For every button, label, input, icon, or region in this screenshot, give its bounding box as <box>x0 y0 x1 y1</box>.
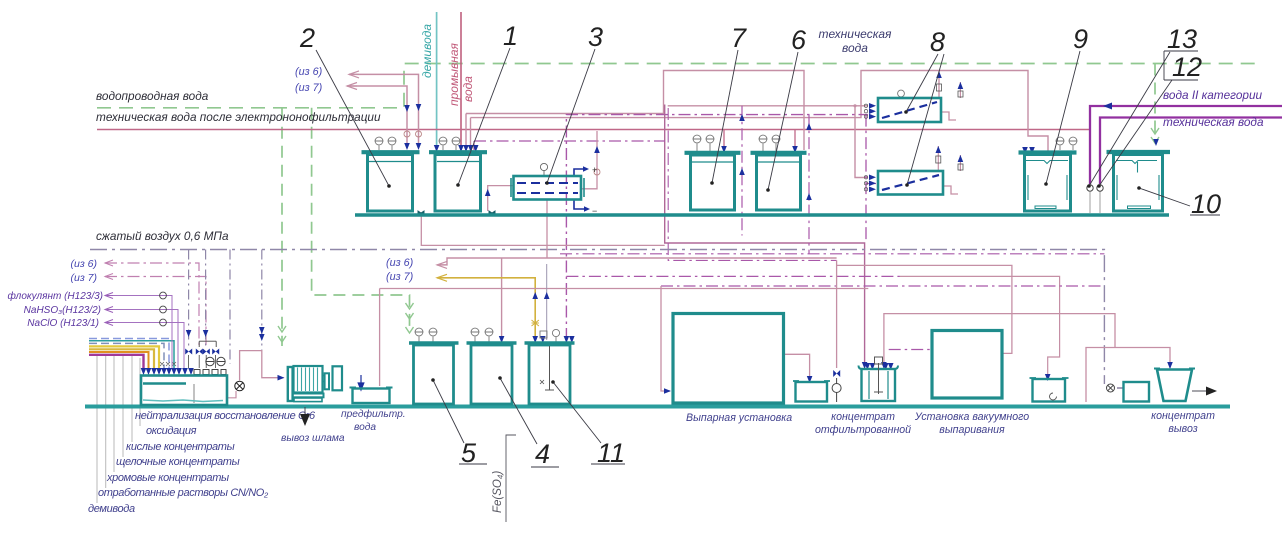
wire vertical riser right of 6 <box>808 115 810 254</box>
svg-text:оксидация: оксидация <box>146 425 197 437</box>
wire green drop to tank 10 <box>1154 64 1156 137</box>
wire stub to tank6 lid <box>794 130 796 147</box>
wire pink valve loop at concentrate tank <box>837 260 1012 368</box>
wire stub to tank7 lid <box>723 130 725 147</box>
arrows into tanks 4 and 11 lids <box>499 336 575 343</box>
callout number 2 <box>299 23 391 188</box>
svg-text:вода: вода <box>842 41 868 55</box>
callout number 6 <box>766 25 807 192</box>
svg-text:кислые концентраты: кислые концентраты <box>126 441 235 453</box>
arrow into tank B <box>1045 374 1051 381</box>
left supply bundle: orange <box>89 352 149 368</box>
pump at neutralization outlet <box>228 391 236 398</box>
wire magenta dashdot mid long <box>560 253 1104 255</box>
tank 2 <box>362 152 420 211</box>
wire green drop to drum area <box>281 108 283 346</box>
wire pink upper band <box>421 215 664 245</box>
svg-text:(из 7): (из 7) <box>71 272 97 284</box>
tank 9 <box>1019 153 1077 212</box>
svg-text:демивода: демивода <box>88 503 135 515</box>
wire pink bridge unit6 loop <box>466 71 804 151</box>
valve circles above neutralization <box>206 357 225 365</box>
callout number 5 <box>431 378 487 468</box>
check valve circle <box>832 378 841 402</box>
svg-text:(из 6): (из 6) <box>295 66 322 78</box>
wire vertical riser between 7 and 6 <box>741 106 743 236</box>
filter cylinder 3 <box>511 176 584 200</box>
valve circles above tanks 5 and 4 <box>415 328 560 342</box>
wire demivoda cyan drop <box>436 12 438 150</box>
svg-text:NaClO (Н123/1): NaClO (Н123/1) <box>27 318 99 329</box>
svg-text:12: 12 <box>1172 52 1202 82</box>
svg-text:нейтрализация восстановление C: нейтрализация восстановление Cr6 <box>135 410 316 422</box>
svg-text:отфильтрованной: отфильтрованной <box>815 424 911 436</box>
wire left pink dashdot iz7 <box>105 277 206 347</box>
left supply bundle: magenta <box>89 355 144 368</box>
svg-text:(из 6): (из 6) <box>386 257 413 269</box>
membrane unit 8 upper <box>878 98 941 122</box>
concentrate tank inlet arrow <box>862 362 868 369</box>
wire pink prefilter feed <box>379 289 381 387</box>
svg-text:(из 7): (из 7) <box>386 271 413 283</box>
svg-text:хромовые концентраты: хромовые концентраты <box>106 472 229 484</box>
wire pink evaporator to tank A <box>784 354 810 376</box>
svg-text:NaHSO₃(Н123/2): NaHSO₃(Н123/2) <box>24 305 101 316</box>
valve circles above top tanks <box>375 90 1078 151</box>
svg-text:1: 1 <box>503 21 518 51</box>
vacuum evaporation unit box <box>932 331 1002 399</box>
unit8b outlet step <box>943 186 958 194</box>
tank 4 <box>467 343 517 404</box>
left supply bundle: teal <box>89 341 174 368</box>
wire green water main: vodoprovodnaya voda <box>97 64 1258 108</box>
unit8a outlet step <box>941 112 956 120</box>
cylinder3 feed pump <box>488 186 513 211</box>
pump symbols on top baseline <box>418 211 495 215</box>
prefilter inlet arrow <box>358 375 364 390</box>
wire NaClO line <box>105 323 184 369</box>
wire air main dashdot <box>90 250 1123 389</box>
wire magenta dashdot unit8a feed from tank11 <box>566 115 868 340</box>
unit8a inlet arrows <box>869 103 876 119</box>
concentrate removal hopper <box>1154 369 1195 402</box>
wire flokulyant line <box>105 296 172 369</box>
wire pink feed unit8a <box>668 105 868 107</box>
wire pink return iz6 to tank2 <box>349 74 419 148</box>
svg-text:техническая вода: техническая вода <box>1163 115 1264 129</box>
tank 11 <box>525 343 575 404</box>
wire pink iz6 mid to tank4 <box>437 258 837 339</box>
tank 7 <box>685 153 741 210</box>
svg-text:техническая: техническая <box>819 27 893 41</box>
svg-text:водопроводная вода: водопроводная вода <box>96 89 209 103</box>
manifold legs to tank <box>189 355 216 368</box>
condensate tank A <box>793 381 830 402</box>
svg-text:вода: вода <box>461 76 475 102</box>
svg-text:(из 7): (из 7) <box>295 82 322 94</box>
wire magenta dashdot y141 to tank1 <box>474 141 665 150</box>
tank 1 <box>429 152 487 211</box>
wire pink bridge unit9 loop <box>471 71 1049 152</box>
callout number 4 <box>498 376 559 469</box>
wire green branch to tank 5 <box>312 108 410 330</box>
svg-text:концентрат: концентрат <box>1151 410 1215 422</box>
svg-text:выпаривания: выпаривания <box>939 424 1005 436</box>
wire yellow drop tank4 gray stub <box>546 264 548 340</box>
svg-text:4: 4 <box>535 439 550 469</box>
mixer arrows into concentrate tank <box>865 363 894 370</box>
top process baseline <box>355 213 1169 217</box>
left supply bundle: yellow 2 <box>89 349 154 368</box>
svg-text:вывоз шлама: вывоз шлама <box>281 433 345 444</box>
wire purple pair down mid <box>665 105 865 363</box>
left supply bundle: blue dashed <box>89 339 169 369</box>
callout number 9 <box>1044 24 1088 186</box>
svg-text:вода: вода <box>354 422 376 433</box>
svg-text:флокулянт (Н123/3): флокулянт (Н123/3) <box>8 290 103 302</box>
FeSO4 bracket line <box>506 435 516 522</box>
hopper outlet arrow <box>1192 387 1217 396</box>
wire magenta drop unit8b feed2 <box>866 115 876 243</box>
green chevrons to tank5 <box>406 303 414 333</box>
callout number 11 <box>551 380 625 468</box>
wire pink tank11 out to tank B right <box>566 275 900 277</box>
svg-text:+: + <box>592 165 597 175</box>
valve cross ticks <box>160 362 176 366</box>
purple line arrow <box>1103 103 1112 110</box>
svg-text:7: 7 <box>731 23 747 53</box>
evaporator unit box <box>673 314 784 404</box>
bottom process baseline <box>85 405 1230 409</box>
membrane unit 8 lower <box>878 171 943 195</box>
svg-text:13: 13 <box>1167 24 1197 54</box>
drum vacuum filter <box>288 366 342 402</box>
tank 5 <box>409 343 459 404</box>
neutralization tank <box>141 376 227 406</box>
callout number 13 <box>1087 24 1198 188</box>
inlet arrows into neutralization tank <box>141 368 194 375</box>
svg-text:8: 8 <box>930 27 945 57</box>
svg-text:сжатый воздух 0,6 МПа: сжатый воздух 0,6 МПа <box>96 229 229 243</box>
tank 6 <box>751 153 807 210</box>
tank 10 <box>1107 152 1171 211</box>
arrows into tanks 1 2 lids <box>404 139 1159 154</box>
wire purple thick tech voda right <box>1100 118 1282 185</box>
svg-text:Fe(SO₄): Fe(SO₄) <box>492 471 504 513</box>
svg-text:9: 9 <box>1073 24 1088 54</box>
callout number 12 <box>1097 51 1202 188</box>
left supply bundle: slate dashed <box>89 343 164 368</box>
wire pink concentrate riser over vacuum box <box>884 314 1115 362</box>
wire gold iz7 mid to tank11 <box>437 278 535 340</box>
svg-text:предфильтр.: предфильтр. <box>341 408 406 420</box>
bowtie valve on concentrate feed <box>833 370 840 377</box>
wire pink pump to drum filter <box>240 351 284 381</box>
valve circle 13 <box>1087 185 1093 191</box>
air valve at hopper line <box>1107 384 1115 392</box>
svg-text:техническая вода после электро: техническая вода после электрононофильтр… <box>96 110 381 124</box>
wire magenta dashdot into vacuum box <box>889 349 932 351</box>
air drops to manifold <box>189 250 262 365</box>
valve circle 12 <box>1097 185 1103 191</box>
upper arrowheads on tank2 drops <box>404 104 421 112</box>
left supply bundle: yellow 1 <box>89 346 159 368</box>
wire pink return iz7 to tank2 <box>347 86 407 148</box>
svg-text:вывоз: вывоз <box>1168 423 1197 435</box>
callout number 8 <box>904 27 945 187</box>
wire pink riser join band <box>546 200 548 259</box>
blue up arrows near tank11 <box>532 292 549 299</box>
wire pink hopper feed <box>1086 348 1170 403</box>
svg-text:3: 3 <box>588 22 603 52</box>
svg-text:10: 10 <box>1191 189 1221 219</box>
unit8a top vent <box>938 71 940 99</box>
wire purple thick voda II <box>1090 106 1282 184</box>
callout number 1 <box>456 21 518 187</box>
svg-text:Установка вакуумного: Установка вакуумного <box>914 411 1029 423</box>
wire left pink dashdot iz6 <box>105 263 199 346</box>
magenta valve into small tank C line <box>1117 387 1123 389</box>
wire pink into evaporator left <box>661 286 670 391</box>
callout number 10 <box>1137 186 1221 219</box>
unit8b inlet arrows <box>869 175 876 193</box>
label wires to bottom labels <box>97 356 140 503</box>
wire magenta dashdot into air vertical <box>661 285 1104 287</box>
filter outlet riser to crimson main <box>582 131 597 189</box>
unit8b right vent <box>938 146 960 171</box>
small tank C <box>1124 382 1150 402</box>
bowtie valves row <box>185 349 219 355</box>
wire NaHSO3 line <box>105 310 178 369</box>
prefilter tank <box>350 388 393 404</box>
manifold bar <box>199 341 216 347</box>
svg-text:11: 11 <box>597 438 625 468</box>
svg-text:вода II категории: вода II категории <box>1163 88 1263 102</box>
svg-text:промывная: промывная <box>447 42 461 106</box>
wire tech voda crimson main <box>97 129 1090 131</box>
fittings squares on tank lid <box>194 370 226 375</box>
svg-text:2: 2 <box>299 23 315 53</box>
cylinder3 top circle <box>540 163 547 176</box>
cylinder3 right fittings <box>574 169 584 209</box>
vyvoz shlama arrow <box>300 407 310 426</box>
svg-text:отработанные растворы CN/NO₂: отработанные растворы CN/NO₂ <box>98 487 269 499</box>
wire promyvnaya voda drop <box>460 12 462 150</box>
svg-text:Выпарная установка: Выпарная установка <box>686 412 792 424</box>
svg-text:демивода: демивода <box>420 24 434 78</box>
svg-text:концентрат: концентрат <box>831 411 895 423</box>
callout number 3 <box>545 22 603 185</box>
wire pink drop unit8b feed <box>855 106 868 178</box>
condensate tank B <box>1030 378 1069 402</box>
green chevrons on drop <box>278 326 286 342</box>
svg-text:(из 6): (из 6) <box>71 258 97 270</box>
callout number 7 <box>710 23 747 185</box>
svg-text:6: 6 <box>791 25 807 55</box>
small valves on tank2 drops <box>404 131 422 137</box>
svg-text:щелочные концентраты: щелочные концентраты <box>116 456 240 468</box>
filtered concentrate tank <box>859 357 899 401</box>
